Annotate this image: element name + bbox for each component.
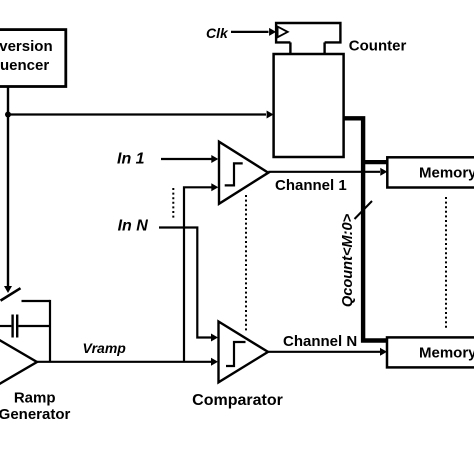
box Memory N [387, 337, 474, 367]
svg-text:Ramp: Ramp [14, 390, 56, 407]
bus Qcount thick [344, 118, 388, 340]
svg-text:Memory: Memory [419, 165, 474, 182]
switch S1 [1, 288, 21, 300]
dots between In 1 and In N [172, 188, 174, 218]
wire Channel 1 to Memory [268, 168, 387, 176]
svg-text:Conversion: Conversion [0, 38, 53, 55]
node junction dot [5, 112, 11, 118]
counter body box [274, 54, 344, 157]
wire feedback vertical [49, 300, 51, 362]
svg-text:Counter: Counter [349, 38, 407, 55]
wire switch to feedback [22, 300, 51, 302]
counter clock register [276, 23, 340, 54]
svg-text:Memory: Memory [419, 345, 474, 362]
capacitor C1 [0, 315, 50, 338]
svg-text:Clk: Clk [206, 25, 229, 41]
dots between comparators [245, 195, 247, 333]
wire In 1 to comparator 1 [161, 155, 218, 163]
svg-text:In 1: In 1 [117, 151, 145, 168]
svg-text:Vramp: Vramp [83, 340, 127, 356]
wire sequencer down to switch [4, 87, 12, 294]
wire Vramp branch up to comparator 1 [184, 183, 218, 361]
svg-text:In N: In N [118, 217, 149, 234]
label Ramp Generator [0, 390, 71, 424]
wire In N to comparator N [159, 228, 218, 342]
svg-text:Channel N: Channel N [283, 333, 357, 350]
comparator U3 channel 1 [219, 142, 268, 204]
box U1 Conversion Sequencer [0, 30, 66, 87]
svg-text:Generator: Generator [0, 406, 71, 423]
comparator U4 channel N [219, 322, 269, 383]
svg-text:Channel 1: Channel 1 [275, 177, 347, 194]
wire sequencer to counter [8, 111, 274, 119]
wire Vramp to comparator N [37, 358, 218, 366]
wire Channel N to Memory [268, 348, 387, 356]
svg-text:Comparator: Comparator [192, 392, 283, 409]
box Memory 1 [387, 157, 474, 187]
svg-text:Sequencer: Sequencer [0, 57, 49, 74]
dots between memories [445, 197, 447, 330]
bus width slash [355, 201, 373, 219]
svg-text:Qcount<M:0>: Qcount<M:0> [340, 213, 356, 307]
op-amp U2 Ramp Generator triangle [0, 338, 37, 387]
wire Clk to counter register [231, 28, 276, 36]
